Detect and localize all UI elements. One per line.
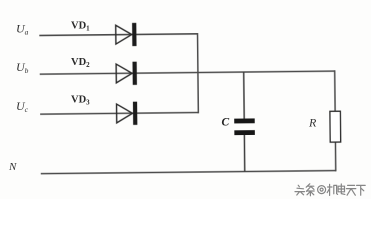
wire: capacitor branch upper segment bbox=[243, 72, 245, 118]
wire: capacitor branch lower segment bbox=[243, 135, 245, 172]
watermark glyph 电 bbox=[338, 184, 345, 194]
wire: phase B line from source to right edge bbox=[40, 71, 335, 74]
diode VD2 bbox=[116, 62, 137, 85]
wire: phase C line from source to cathode bus bbox=[40, 113, 198, 115]
watermark glyph 天 bbox=[346, 185, 355, 195]
watermark: 头条 @机电天下 (drawn as strokes) bbox=[295, 184, 365, 196]
svg-text:VD3: VD3 bbox=[71, 95, 90, 107]
wire: resistor branch upper segment bbox=[334, 70, 336, 111]
watermark glyph 条 bbox=[306, 184, 314, 196]
wire: resistor branch lower segment bbox=[334, 142, 336, 171]
svg-text:R: R bbox=[308, 116, 317, 130]
diode VD3 bbox=[117, 102, 138, 125]
watermark glyph 头 bbox=[295, 185, 305, 195]
svg-text:VD2: VD2 bbox=[71, 57, 90, 69]
watermark glyph @ bbox=[318, 186, 326, 194]
svg-text:Ub: Ub bbox=[16, 60, 29, 75]
svg-text:Uc: Uc bbox=[16, 99, 29, 114]
wire: phase A line from source to cathode bus bbox=[39, 34, 197, 36]
diode VD1 bbox=[116, 23, 137, 46]
svg-text:Ua: Ua bbox=[16, 22, 29, 37]
svg-text:N: N bbox=[8, 161, 17, 173]
watermark glyph 机 bbox=[327, 184, 337, 195]
wire: neutral N bottom line bbox=[41, 171, 336, 174]
watermark glyph 下 bbox=[357, 185, 366, 195]
capacitor C plates bbox=[234, 118, 255, 135]
resistor R body bbox=[330, 111, 341, 142]
svg-text:VD1: VD1 bbox=[71, 21, 90, 33]
wire: cathode bus vertical joining the three diode outputs bbox=[196, 33, 199, 113]
svg-text:C: C bbox=[222, 117, 230, 129]
